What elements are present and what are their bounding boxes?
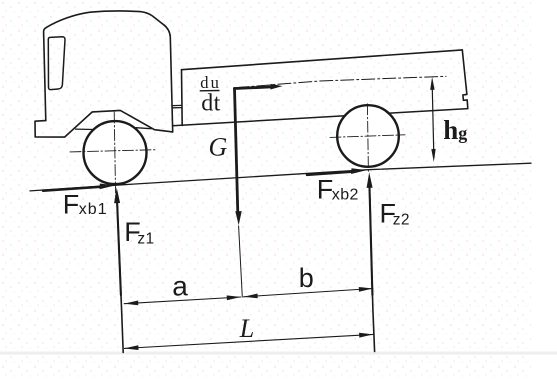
CG height dash-dot reference line xyxy=(236,76,446,87)
svg-text:dt: dt xyxy=(201,91,220,117)
F_xb1 arrow shaft xyxy=(43,187,101,191)
arrowhead a right xyxy=(227,295,241,300)
ground line xyxy=(30,163,531,191)
cab-bed connector bracket xyxy=(173,105,182,107)
dimension line a xyxy=(124,297,241,304)
cab outline xyxy=(44,11,173,132)
front bumper and wheel fender xyxy=(35,110,173,137)
rear wheel xyxy=(337,105,399,167)
svg-text:xb1: xb1 xyxy=(79,201,108,218)
truck bed right edge with notch xyxy=(462,50,468,109)
weight force G arrow shaft (vertical thick) xyxy=(235,88,238,213)
arrowhead G down xyxy=(235,211,241,225)
rear wheel centerlines xyxy=(330,135,405,138)
faint scan streak xyxy=(0,352,557,355)
front wheel xyxy=(84,121,147,184)
svg-text:z1: z1 xyxy=(137,230,154,247)
arrowhead b right xyxy=(359,287,373,292)
cab floor line stubs behind front wheel xyxy=(76,128,152,130)
svg-text:b: b xyxy=(299,263,314,293)
svg-text:G: G xyxy=(209,133,228,162)
arrowhead F_z2 up xyxy=(367,172,373,188)
truck bed top edge xyxy=(182,50,463,70)
svg-text:z2: z2 xyxy=(393,211,410,228)
fraction bar xyxy=(200,90,220,92)
arrowhead h_g up xyxy=(430,77,434,90)
svg-text:a: a xyxy=(172,270,188,301)
arrowhead b left xyxy=(244,294,258,299)
svg-text:h: h xyxy=(443,115,458,145)
dimension line L xyxy=(124,334,373,348)
svg-text:g: g xyxy=(458,123,467,143)
h_g dimension line xyxy=(432,89,433,150)
svg-text:L: L xyxy=(239,314,254,343)
arrowhead a left xyxy=(124,301,138,306)
arrowhead F_xb1 right xyxy=(100,184,116,190)
svg-text:xb2: xb2 xyxy=(332,186,359,203)
chassis line under bed xyxy=(173,109,468,126)
arrowhead h_g down xyxy=(431,149,435,162)
F_xb2 arrow shaft xyxy=(307,172,353,175)
svg-text:du: du xyxy=(200,73,221,92)
F_z1 arrow shaft / left extension line xyxy=(117,202,123,353)
dimension line b xyxy=(244,289,373,297)
truck bed front edge xyxy=(181,70,184,126)
du/dt acceleration arrow (horizontal thick) xyxy=(235,87,273,89)
arrowhead du/dt xyxy=(270,84,282,90)
G extension line below arrow xyxy=(239,226,243,297)
arrowhead L right xyxy=(359,333,373,338)
cab side window xyxy=(48,37,65,90)
F_z2 arrow shaft / right extension line xyxy=(370,187,375,352)
arrowhead F_xb2 right xyxy=(351,168,367,174)
arrowhead L left xyxy=(124,345,138,350)
front wheel centerlines xyxy=(70,150,157,152)
arrowhead F_z1 up xyxy=(114,188,120,204)
svg-text:F: F xyxy=(63,189,80,219)
